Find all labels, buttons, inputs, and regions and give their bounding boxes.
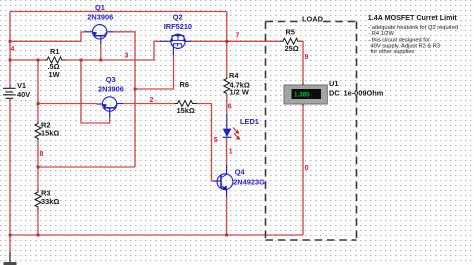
resistor R5 body [281, 38, 299, 44]
ground symbol [9, 252, 11, 262]
resistor R4 body vertical [224, 77, 230, 94]
wire node 8 horizontal [38, 166, 135, 168]
wire top rail node 4 [10, 11, 227, 13]
svg-text:6: 6 [228, 104, 232, 111]
wire V1 top lead [9, 12, 11, 87]
svg-text:8: 8 [40, 151, 44, 158]
svg-text:2N4923G: 2N4923G [233, 177, 265, 186]
wire node 4 branch to Q1 emitter [10, 32, 84, 41]
svg-text:R6: R6 [180, 80, 189, 89]
junction node3 at V1 [9, 59, 12, 62]
wire ground stub below rail [9, 235, 11, 252]
wire vertical Q1 collector down to node 8 wire [134, 32, 136, 167]
wire Q1 base down [100, 45, 102, 61]
junction ground rail V1 [9, 234, 12, 237]
svg-text:4: 4 [11, 46, 15, 53]
wire Q3 base loop to node 3 [81, 60, 110, 123]
LOAD dashed box right edge [356, 22, 358, 241]
svg-text:2: 2 [150, 97, 154, 104]
battery V1 top lead [9, 86, 11, 88]
resistor R6 body [175, 101, 197, 107]
battery V1 plate long [3, 94, 16, 96]
svg-text:1.4A MOSFET Curret Limit: 1.4A MOSFET Curret Limit [368, 14, 458, 22]
svg-text:DC: DC [329, 89, 340, 98]
junction R4 top node 7 [225, 40, 228, 43]
wire node to Q3 emitter [38, 103, 97, 105]
wire node 1 LED1 to Q4 collector [226, 138, 228, 165]
svg-text:R1: R1 [50, 47, 59, 56]
wire node 9 R5 to U1 top [299, 41, 304, 84]
svg-text:for other supplies: for other supplies [371, 49, 415, 55]
wire node 0 U1 bottom down [302, 105, 304, 236]
junction ground rail Q4 [225, 234, 228, 237]
junction ground rail R3 [37, 234, 40, 237]
svg-text:Q2: Q2 [173, 12, 183, 21]
resistor R3 body vertical [35, 190, 41, 211]
svg-text:1/2 W: 1/2 W [230, 88, 249, 97]
wire node 7 to R5 [217, 40, 281, 42]
junction R2 top [37, 59, 40, 62]
junction Q2 gate on collector line [134, 88, 137, 91]
wire R3 to ground rail [37, 211, 39, 236]
LED1 top lead blue [226, 114, 228, 129]
svg-text:1W: 1W [49, 70, 60, 79]
battery V1 plate short bottom [6, 97, 14, 99]
svg-text:Q1: Q1 [95, 3, 105, 12]
multimeter U1 display [292, 89, 322, 99]
LOAD dashed box top edge [266, 21, 301, 23]
wire bottom ground rail [10, 234, 303, 236]
svg-text:LED1: LED1 [240, 117, 259, 126]
multimeter U1 body [284, 85, 327, 104]
wire node 6 R4 to LED1 [226, 94, 228, 115]
svg-text:R4: R4 [229, 71, 239, 80]
svg-text:2N3906: 2N3906 [87, 12, 113, 21]
transistor Q3 2N3906 [97, 97, 124, 117]
LOAD dashed box left edge [265, 22, 267, 241]
wire V1 bottom lead down [9, 100, 11, 235]
wire node 3 horizontal [10, 59, 45, 61]
svg-text:7: 7 [236, 33, 240, 40]
battery V1 plate long top [3, 87, 16, 89]
LED1 cathode bar [223, 136, 232, 138]
LED1 emission arrow 1 [233, 128, 237, 132]
wire R2 R3 column [37, 60, 39, 121]
svg-text:V1: V1 [17, 81, 26, 90]
wire Q1 collector to vertical [113, 31, 136, 33]
battery V1 plate short [6, 91, 14, 93]
LED1 emission arrow 2 [234, 134, 238, 138]
LOAD dashed box bottom edge [266, 239, 357, 241]
wire node 2 Q3 collector to R6 [123, 103, 175, 105]
svg-text:Q4: Q4 [235, 167, 246, 176]
junction node 8 [37, 166, 40, 169]
junction Q1 base on node3 [99, 59, 102, 62]
svg-text:1e-009Ohm: 1e-009Ohm [344, 89, 384, 98]
wire node 3 right of R1 to Q2 source [66, 41, 161, 60]
svg-text:25Ω: 25Ω [285, 44, 299, 53]
junction Q3 loop on node3 [80, 59, 83, 62]
wire Q2 drain to node 7 [191, 40, 217, 42]
wire Q4 emitter down to ground rail [226, 197, 228, 236]
svg-text:R5: R5 [286, 28, 295, 37]
resistor R1 body [45, 57, 66, 63]
MOSFET Q2 IRF5210 [160, 34, 191, 55]
svg-text:33kΩ: 33kΩ [41, 197, 59, 206]
junction node4 at V1 [9, 40, 12, 43]
svg-text:15kΩ: 15kΩ [41, 129, 59, 138]
svg-text:9: 9 [305, 54, 309, 61]
svg-text:2N3906: 2N3906 [98, 84, 124, 93]
wire node 5 R6 to Q4 base [197, 104, 214, 182]
svg-text:- R4 1/2W: - R4 1/2W [368, 31, 394, 37]
LED1 triangle [223, 129, 232, 137]
transistor Q1 2N3906 [84, 25, 113, 45]
svg-text:LOAD: LOAD [302, 15, 324, 24]
svg-text:1: 1 [229, 149, 233, 156]
wire rail right drop to node 7 [226, 12, 228, 42]
svg-text:0: 0 [305, 165, 309, 172]
svg-text:Q3: Q3 [106, 75, 116, 84]
svg-text:5: 5 [214, 137, 218, 144]
svg-text:U1: U1 [329, 79, 338, 88]
junction Q3 emitter branch [37, 102, 40, 105]
battery V1 bottom lead [9, 99, 11, 101]
wire Q2 gate loop [135, 55, 174, 89]
svg-text:1.385: 1.385 [294, 92, 310, 99]
transistor Q4 2N4923G [214, 165, 233, 197]
svg-text:IRF5210: IRF5210 [164, 22, 192, 31]
resistor R2 body vertical [35, 121, 41, 142]
multimeter U1 pin stubs [302, 84, 304, 106]
svg-text:15kΩ: 15kΩ [177, 106, 195, 115]
svg-text:40V: 40V [17, 90, 30, 99]
wire R2 to node 8 [37, 142, 39, 190]
svg-text:3: 3 [125, 53, 129, 60]
wire R4 top lead from node 7 [226, 41, 228, 76]
